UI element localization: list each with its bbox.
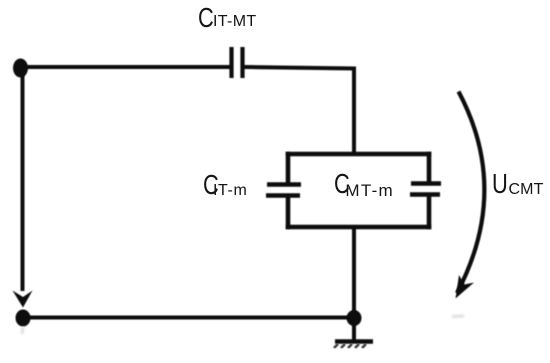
ground hatch marks xyxy=(334,344,366,348)
wire parallel block right edge upper xyxy=(427,152,432,184)
capacitor C_IT-MT plates xyxy=(229,47,233,78)
wire parallel block right edge lower xyxy=(427,195,432,230)
wire right vertical into parallel block xyxy=(352,67,356,157)
wire bottom horizontal xyxy=(21,316,355,320)
label C_IT-MT xyxy=(198,4,214,32)
node bottom-right (ground node) xyxy=(347,310,362,326)
capacitor C_MT-m plates xyxy=(411,181,441,186)
label C_MT-m xyxy=(334,170,350,198)
ground bar xyxy=(335,339,373,344)
wire parallel block left edge lower xyxy=(286,196,291,230)
wire parallel block bottom edge xyxy=(286,225,432,230)
wire top horizontal right segment xyxy=(245,67,357,69)
ground stub wire xyxy=(352,318,356,340)
node top-left xyxy=(13,59,28,78)
node bottom-left xyxy=(16,310,31,327)
faint smudge below arrow tip xyxy=(452,315,464,319)
wire bottom vertical from block to ground node xyxy=(352,227,356,318)
capacitor C_IT-m plates xyxy=(267,182,301,187)
wire top horizontal left segment xyxy=(20,65,230,69)
arrow U_CMT curved stroke xyxy=(457,92,484,294)
label C_IT-m xyxy=(203,171,219,199)
wire parallel block top edge xyxy=(286,152,432,157)
arrowhead left wire down xyxy=(13,291,33,308)
wire parallel block left edge upper xyxy=(286,152,291,185)
wire left vertical xyxy=(21,68,25,291)
arrowhead U_CMT xyxy=(456,275,475,299)
label U_CMT xyxy=(492,170,508,198)
faint smudge below bottom-left node xyxy=(22,327,23,334)
